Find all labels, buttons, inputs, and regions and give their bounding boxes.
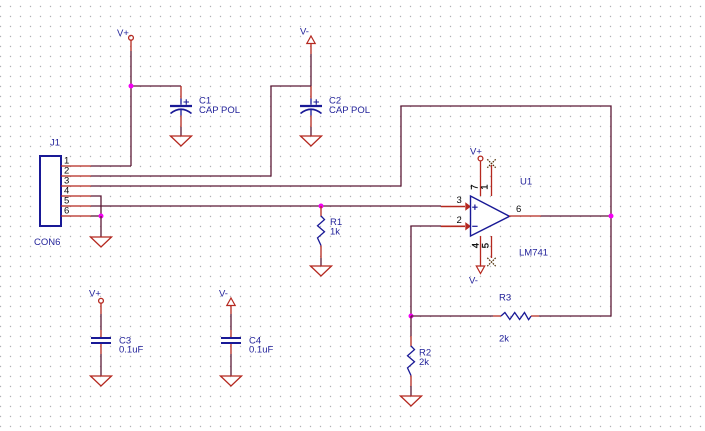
wire V+ rail down to J1 pin1 row	[130, 51, 132, 166]
wire output to feedback rail	[541, 215, 611, 217]
ground below C1	[171, 136, 192, 146]
svg-text:V-: V-	[300, 27, 309, 38]
svg-text:CAP POL: CAP POL	[329, 105, 370, 116]
J1 pin 6 stub	[61, 215, 91, 217]
U1 pin 5 line (offset null, no-connect)	[491, 236, 493, 258]
ground below J1	[91, 237, 112, 247]
connector J1 body	[40, 156, 61, 226]
svg-text:2: 2	[457, 215, 462, 226]
power symbol V- (top)	[307, 36, 315, 54]
power symbol V- below U1	[476, 266, 484, 274]
ground below R1	[311, 266, 332, 276]
J1 pin 1 stub	[61, 165, 91, 167]
capacitor C3 leads	[100, 314, 102, 376]
capacitor C2 leads	[310, 86, 312, 136]
svg-text:V-: V-	[469, 276, 478, 287]
op-amp U1 triangle	[471, 196, 510, 236]
junction output/feedback	[609, 214, 614, 219]
power symbol V+ (top left)	[129, 35, 134, 51]
U1 output pin 6 line	[509, 215, 541, 217]
svg-text:1k: 1k	[330, 227, 340, 238]
J1 pin 3 stub	[61, 185, 91, 187]
no-connect X on pin 1	[487, 159, 495, 167]
J1 pin 2 stub	[61, 175, 91, 177]
svg-text:V+: V+	[89, 289, 101, 300]
resistor R2 leads	[410, 316, 412, 396]
wire node to R3 left lead	[411, 315, 493, 317]
capacitor C1 leads	[180, 86, 182, 136]
svg-text:2k: 2k	[419, 357, 429, 368]
op-amp U1 input pin 2 line with arrow	[441, 222, 471, 230]
ground below R2	[401, 396, 422, 406]
svg-text:CON6: CON6	[34, 237, 60, 248]
svg-text:6: 6	[64, 206, 69, 217]
J1 pin 5 stub	[61, 205, 91, 207]
svg-text:J1: J1	[50, 138, 60, 149]
ground below C3	[91, 376, 112, 386]
wire J1 pin3 to feedback net	[91, 106, 611, 316]
capacitor C3	[91, 338, 111, 343]
wire J1 pin5 to op-amp noninverting input	[91, 205, 441, 207]
svg-text:1: 1	[480, 185, 491, 190]
wire J1 pin4 down to ground net	[91, 196, 101, 216]
op-amp U1 input pin 3 line with arrow	[441, 202, 471, 210]
resistor R3	[501, 313, 531, 320]
junction R2/R3/inverting-input node	[409, 314, 414, 319]
resistor R3 leads	[493, 315, 539, 317]
U1 pin 7 (V+) line	[480, 161, 482, 196]
capacitor C1 (CAP POL)	[170, 99, 192, 113]
ground below C4	[221, 376, 242, 386]
wire down to ground below J1	[100, 216, 102, 237]
svg-text:0.1uF: 0.1uF	[119, 345, 143, 356]
svg-text:7: 7	[469, 185, 480, 190]
power symbol V+ above C3	[99, 298, 104, 314]
svg-text:0.1uF: 0.1uF	[249, 345, 273, 356]
svg-text:6: 6	[516, 204, 521, 215]
capacitor C2 (CAP POL)	[300, 99, 322, 113]
junction at R1 top	[319, 204, 324, 209]
svg-text:2k: 2k	[499, 334, 509, 345]
svg-text:V-: V-	[219, 289, 228, 300]
no-connect X on pin 5	[487, 258, 495, 266]
resistor R1	[318, 216, 325, 246]
ground below C2	[301, 136, 322, 146]
wire J1 pin1 to V+ rail	[91, 165, 131, 167]
wire inverting input to R2/R3 node	[411, 226, 441, 316]
capacitor C4 leads	[230, 314, 232, 376]
J1 pin 4 stub	[61, 195, 91, 197]
svg-text:5: 5	[481, 243, 492, 248]
svg-text:3: 3	[457, 195, 462, 206]
capacitor C4	[221, 338, 241, 343]
wire J1 pin6 to ground net	[91, 215, 101, 217]
U1 pin 4 (V-) line	[480, 236, 482, 266]
wire V- rail down to C2	[310, 54, 312, 86]
power symbol V- above C4	[227, 298, 235, 314]
svg-text:V+: V+	[117, 28, 129, 39]
power symbol V+ above U1	[478, 156, 483, 161]
svg-text:LM741: LM741	[519, 248, 548, 259]
svg-text:CAP POL: CAP POL	[199, 105, 240, 116]
junction on V+ rail	[129, 84, 134, 89]
U1 plus input marker	[472, 205, 477, 210]
wire J1 pin2 to V- rail	[91, 86, 311, 176]
junction pin4/pin6 ground net	[99, 214, 104, 219]
wire branch V+ to C1	[131, 85, 181, 87]
svg-text:R3: R3	[499, 293, 511, 304]
U1 pin 1 line (offset null, no-connect)	[491, 165, 493, 196]
resistor R2	[408, 346, 415, 376]
svg-text:V+: V+	[470, 147, 482, 158]
svg-text:U1: U1	[520, 177, 532, 188]
resistor R1 leads	[320, 206, 322, 266]
U1 minus input marker	[472, 225, 477, 227]
